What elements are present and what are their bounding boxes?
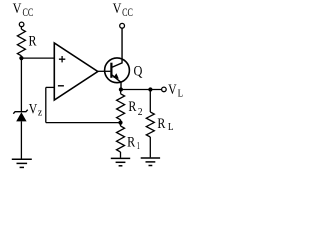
output terminal VL	[162, 87, 167, 92]
svg-text:R: R	[29, 33, 37, 49]
ground (left, below zener)	[12, 159, 32, 167]
svg-text:R: R	[157, 116, 165, 132]
svg-text:2: 2	[138, 106, 143, 118]
label R1	[127, 134, 140, 151]
wire RL to ground	[149, 137, 151, 157]
wire R to node A	[20, 56, 22, 58]
feedback wire (horizontal to R1/R2 junction)	[46, 122, 121, 124]
resistor R	[17, 29, 25, 56]
resistor R2	[117, 94, 125, 120]
zener diode Vz cathode bar	[13, 110, 27, 114]
wire VCC to resistor R	[20, 27, 22, 30]
wire node A down to zener	[20, 58, 22, 112]
ground (below R1)	[111, 158, 130, 165]
wire node A to op-amp noninverting input	[21, 57, 54, 59]
svg-text:V: V	[113, 1, 122, 17]
node C (RL branch)	[148, 87, 152, 91]
label Vz	[29, 101, 43, 118]
wire node C down to RL	[149, 90, 151, 113]
svg-text:V: V	[168, 82, 177, 98]
resistor R1	[117, 126, 125, 152]
wire R1 to ground	[120, 152, 122, 158]
feedback wire (inverting input down)	[45, 87, 47, 122]
power terminal VCC (left)	[19, 22, 24, 27]
power terminal VCC (middle)	[120, 23, 125, 28]
transistor Q collector lead	[112, 28, 122, 67]
wire op-amp output to transistor base	[98, 70, 111, 72]
op-amp U1	[54, 43, 98, 100]
wire op-amp inverting input	[46, 86, 55, 88]
svg-text:CC: CC	[122, 7, 133, 19]
label R2	[128, 99, 142, 118]
wire R2 to junction node D	[120, 120, 122, 123]
op-amp - pin marker	[58, 85, 64, 87]
wire emitter node to R2	[120, 90, 122, 94]
svg-text:z: z	[38, 107, 43, 118]
label RL	[157, 116, 173, 133]
svg-text:Q: Q	[134, 63, 143, 79]
transistor Q circle	[105, 58, 130, 83]
svg-text:L: L	[168, 122, 174, 133]
svg-text:CC: CC	[23, 7, 34, 19]
zener diode Vz anode triangle	[16, 112, 26, 121]
svg-text:R: R	[128, 99, 136, 115]
ground (below RL)	[141, 158, 160, 166]
transistor Q base bar	[110, 63, 112, 78]
svg-text:1: 1	[137, 140, 140, 152]
label VCC (middle)	[113, 1, 134, 19]
transistor Q emitter lead	[112, 75, 121, 90]
transistor Q emitter arrowhead	[113, 73, 119, 78]
svg-text:L: L	[178, 88, 184, 99]
wire emitter node to VL terminal	[121, 89, 162, 91]
resistor RL	[146, 112, 154, 137]
op-amp + pin marker	[59, 56, 65, 62]
label VCC (left)	[13, 1, 34, 19]
node A (R / zener / op-amp + junction)	[19, 56, 23, 60]
node D (R1/R2/feedback junction)	[118, 121, 122, 125]
wire junction to R1	[120, 123, 122, 126]
node B (emitter node)	[119, 87, 123, 91]
label VL	[168, 82, 183, 99]
svg-text:V: V	[13, 1, 22, 17]
svg-text:R: R	[127, 134, 135, 150]
wire zener to ground	[20, 121, 22, 158]
svg-text:V: V	[29, 101, 38, 117]
